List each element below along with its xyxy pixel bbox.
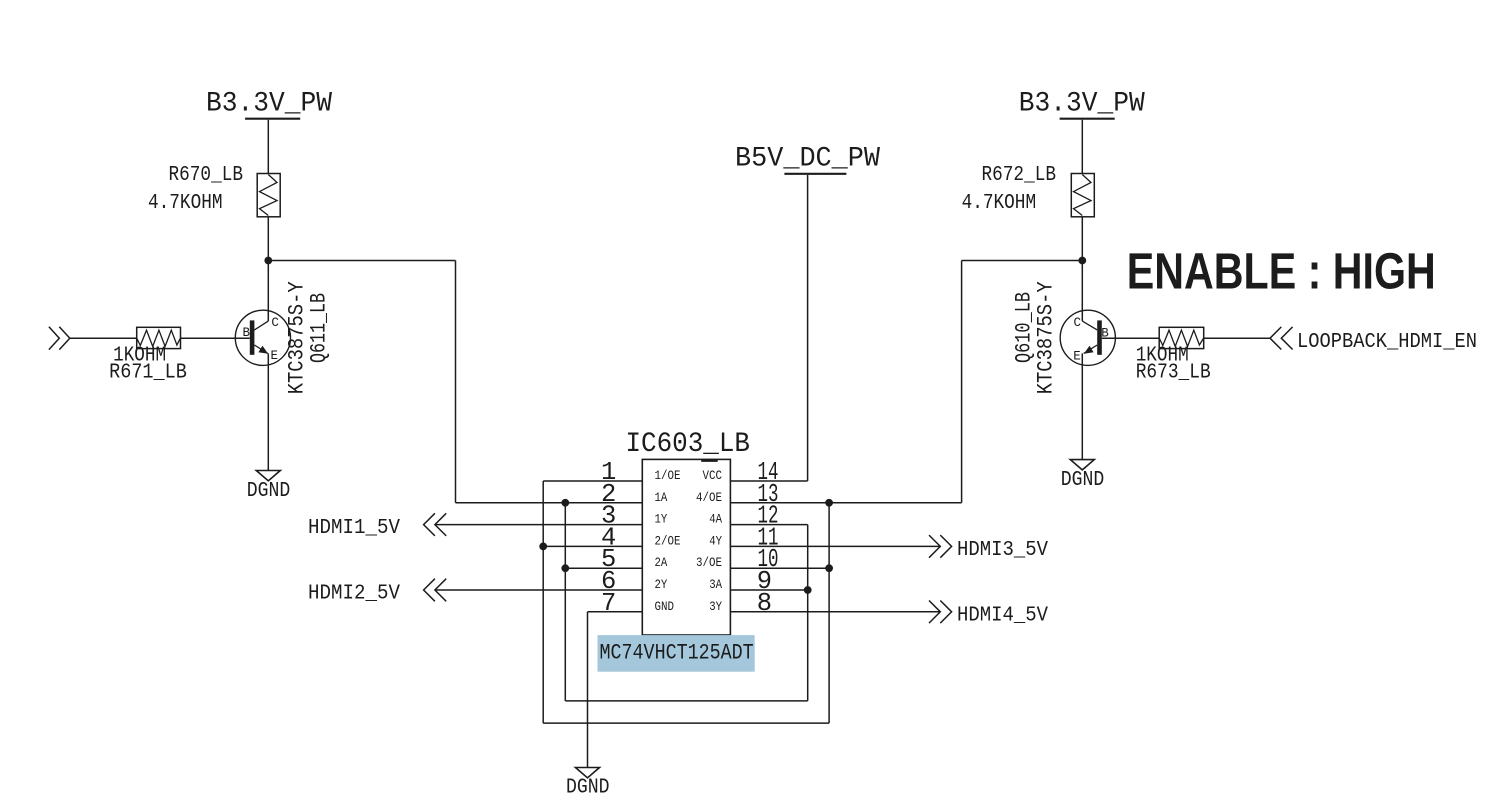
svg-text:DGND: DGND xyxy=(566,775,610,799)
svg-text:DGND: DGND xyxy=(1061,468,1105,492)
svg-text:Q611_LB: Q611_LB xyxy=(307,293,332,363)
svg-text:B5V_DC_PW: B5V_DC_PW xyxy=(735,144,880,175)
wire to IC pin 2 xyxy=(456,502,643,504)
svg-text:VCC: VCC xyxy=(703,468,723,483)
port chevron LOOPBACK_HDMI_EN xyxy=(1270,327,1281,350)
svg-text:2A: 2A xyxy=(655,555,668,570)
svg-text:7: 7 xyxy=(601,589,616,618)
junction pin5 A-net xyxy=(561,564,569,572)
wire R673 to chevron xyxy=(1204,337,1270,339)
wire node to right xyxy=(268,260,455,262)
wire OE-net to right node xyxy=(961,261,963,503)
pin 11 stub xyxy=(730,545,940,547)
svg-text:R670_LB: R670_LB xyxy=(169,163,244,187)
svg-text:R672_LB: R672_LB xyxy=(982,163,1057,187)
svg-text:4/OE: 4/OE xyxy=(696,490,722,505)
svg-text:4.7KOHM: 4.7KOHM xyxy=(962,191,1037,215)
wire down to pin2 row xyxy=(455,261,457,503)
pin 1 stub xyxy=(543,480,642,482)
input port chevron (left) xyxy=(49,327,59,350)
svg-text:8: 8 xyxy=(757,589,772,618)
wire R670 to node xyxy=(267,217,269,261)
wire node to collector xyxy=(1081,261,1083,322)
ground DGND (right) xyxy=(1070,460,1094,470)
svg-text:2/OE: 2/OE xyxy=(655,533,681,548)
svg-text:IC603_LB: IC603_LB xyxy=(626,429,751,460)
svg-text:HDMI1_5V: HDMI1_5V xyxy=(308,516,400,540)
wire B3.3V to R670 xyxy=(267,120,269,174)
svg-text:B3.3V_PW: B3.3V_PW xyxy=(206,89,332,120)
svg-text:3A: 3A xyxy=(709,577,722,592)
svg-text:1/OE: 1/OE xyxy=(655,468,681,483)
svg-text:DGND: DGND xyxy=(247,479,290,503)
part number MC74VHCT125ADT highlight xyxy=(598,635,755,672)
svg-text:HDMI3_5V: HDMI3_5V xyxy=(957,538,1048,562)
resistor R673_LB 1KOHM xyxy=(1159,327,1204,348)
wire chevron to R671 xyxy=(70,337,137,339)
wire R672 to node xyxy=(1081,217,1083,261)
svg-text:3/OE: 3/OE xyxy=(696,555,722,570)
svg-text:R673_LB: R673_LB xyxy=(1136,360,1211,384)
svg-text:2Y: 2Y xyxy=(655,577,668,592)
wire B3.3V to R672 xyxy=(1081,120,1083,174)
resistor R670_LB 4.7KOHM xyxy=(257,174,280,217)
pin 10 stub xyxy=(730,567,829,569)
pin 5 stub xyxy=(565,567,642,569)
svg-text:4.7KOHM: 4.7KOHM xyxy=(148,191,223,215)
wire OE-net vertical left xyxy=(542,481,544,723)
pin 9 stub xyxy=(730,589,807,591)
transistor Q610 xyxy=(1060,310,1115,365)
wire A-net vertical left xyxy=(564,503,566,701)
wire base to R673 xyxy=(1102,337,1159,339)
svg-text:LOOPBACK_HDMI_EN: LOOPBACK_HDMI_EN xyxy=(1297,330,1477,354)
junction pin13 OE-net xyxy=(825,499,833,507)
wire GND pin7 down xyxy=(587,612,589,768)
wire OE-net vertical right xyxy=(828,503,830,723)
wire A-net bottom xyxy=(565,700,807,702)
node junction left collector xyxy=(264,257,272,265)
resistor R672_LB 4.7KOHM xyxy=(1071,174,1094,217)
svg-text:MC74VHCT125ADT: MC74VHCT125ADT xyxy=(600,641,754,666)
junction pin4 OE-net xyxy=(539,543,547,551)
pin 7 stub xyxy=(588,611,643,613)
svg-text:HDMI2_5V: HDMI2_5V xyxy=(308,582,400,606)
wire emitter down (right) xyxy=(1081,353,1083,459)
svg-text:3Y: 3Y xyxy=(709,599,722,614)
svg-text:B3.3V_PW: B3.3V_PW xyxy=(1019,89,1145,120)
wire emitter down xyxy=(267,353,269,470)
svg-text:1A: 1A xyxy=(655,490,668,505)
wire OE-net bottom xyxy=(543,722,829,724)
pin 3 stub xyxy=(435,524,642,526)
ground DGND (IC) xyxy=(576,768,600,778)
wire R671 to base xyxy=(181,337,250,339)
svg-text:4A: 4A xyxy=(709,512,722,527)
transistor Q611 xyxy=(235,310,290,365)
svg-text:R671_LB: R671_LB xyxy=(109,360,187,384)
svg-text:C: C xyxy=(271,316,279,330)
svg-text:HDMI4_5V: HDMI4_5V xyxy=(957,603,1048,627)
svg-text:1Y: 1Y xyxy=(655,512,668,527)
svg-text:E: E xyxy=(271,349,279,363)
pin 4 stub xyxy=(543,545,642,547)
svg-text:E: E xyxy=(1073,350,1081,364)
pin 8 stub xyxy=(730,611,940,613)
svg-text:ENABLE : HIGH: ENABLE : HIGH xyxy=(1127,243,1436,300)
junction pin2 A-net xyxy=(561,499,569,507)
junction pin10 OE-net xyxy=(825,564,833,572)
pin 13 stub xyxy=(730,502,961,504)
resistor R671_LB 1KOHM xyxy=(137,327,181,348)
svg-text:KTC3875S-Y: KTC3875S-Y xyxy=(1034,281,1059,394)
wire A-net vertical right xyxy=(807,525,809,701)
node junction right collector xyxy=(1078,257,1086,265)
junction pin9 A-net xyxy=(804,586,812,594)
svg-text:GND: GND xyxy=(655,599,675,614)
svg-text:C: C xyxy=(1073,316,1081,330)
ground DGND (left) xyxy=(256,471,280,481)
svg-text:4Y: 4Y xyxy=(709,533,722,548)
wire B5V down to pin 14 xyxy=(807,175,809,481)
pin 12 stub xyxy=(730,524,807,526)
wire node to collector xyxy=(267,261,269,322)
pin 6 stub xyxy=(435,589,642,591)
